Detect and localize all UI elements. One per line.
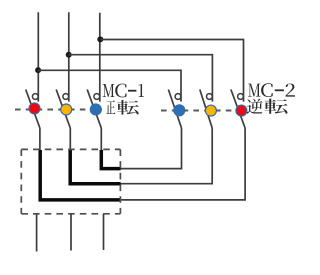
label MC-1: C [115,84,126,98]
contact MC-1 pole 2 (yellow): colored actuator dot [61,104,72,115]
wire MC-1 pole1 to box terminal [39,128,41,151]
contact MC-1 pole 1 (red): fixed terminal hook [32,94,38,100]
mechanical link dashed line MC-1 [15,109,102,111]
thick jumper wire pole1 to lower bus [40,150,120,200]
node junction on L1 [35,67,41,73]
contact MC-1 pole 1 (red): moving blade [26,90,40,129]
wire branch L2 to MC-2 pole 2 [69,55,213,102]
wire feeder R (L1) from supply [37,12,39,101]
label MC-2: 2 [286,84,295,97]
contact MC-2 pole 2 (yellow): fixed terminal hook [207,94,213,100]
thick jumper wire pole3 to upper bus [101,150,120,169]
contact MC-2 pole 2 (yellow): colored actuator dot [205,105,216,116]
contact MC-1 pole 2 (yellow): moving blade [56,90,70,129]
contact MC-1 pole 1 (red): colored actuator dot [29,103,40,114]
terminal box dashed left edge [20,149,22,213]
label reverse: kanji TEN [264,99,287,114]
thick jumper wire pole2 to middle bus [70,150,120,184]
contact MC-2 pole 2 (yellow): moving blade [200,90,212,129]
terminal box dashed right edge [119,149,121,213]
terminal box dashed bottom edge [21,213,120,215]
label forward: kanji TEN [117,100,139,115]
node junction on L3 [97,36,103,42]
label MC-1: dash [128,90,136,92]
wire motor lead W [103,214,105,250]
label reverse: kanji GYAKU [247,99,263,114]
mechanical link dashed line MC-2 [161,110,237,112]
wire motor lead U [36,214,38,252]
contact MC-1 pole 2 (yellow): fixed terminal hook [63,94,69,100]
contact MC-2 pole 1 (blue): moving blade [168,90,181,129]
wire feeder T (L3) from supply [99,13,101,102]
node junction on L2 [66,52,72,58]
contact MC-2 pole 1 (blue): fixed terminal hook [175,94,181,100]
wire MC-1 pole2 to box terminal [69,128,71,151]
contact MC-2 pole 1 (blue): colored actuator dot [174,105,185,116]
label MC-2: dash [275,89,284,91]
contact MC-2 pole 3 (red): moving blade [231,90,245,129]
wire feeder S (L2) from supply [68,12,70,101]
contact MC-1 pole 3 (blue): colored actuator dot [90,104,101,115]
wire motor lead V [70,214,72,251]
contact MC-2 pole 3 (red): fixed terminal hook [238,94,244,100]
contact MC-2 pole 3 (red): colored actuator dot [236,105,247,116]
terminal box dashed top edge [21,148,120,150]
wire branch L1 to MC-2 pole 1 [38,70,181,101]
label MC-1: 1 [139,84,144,97]
wire MC-2 pole1 down and left to box [120,128,182,169]
label MC-2: C [261,83,273,97]
wire MC-2 pole2 down and left to box [120,128,213,184]
label MC-1: M [103,84,115,97]
label MC-2: M [248,84,260,97]
wire branch L3 to MC-2 pole 3 [100,40,243,102]
wire MC-1 pole3 to box terminal [100,128,102,151]
contact MC-1 pole 3 (blue): fixed terminal hook [94,94,100,100]
label forward: kanji SEI [106,100,115,114]
contact MC-1 pole 3 (blue): moving blade [87,90,101,129]
wire MC-2 pole3 down and left to box [120,128,246,200]
